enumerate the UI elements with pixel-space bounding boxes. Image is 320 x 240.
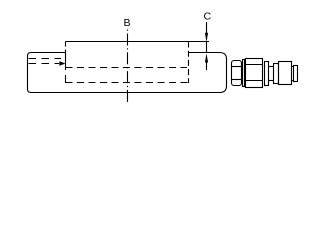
nut 2 facet line upper: [246, 64, 263, 66]
hidden mid line: [66, 67, 188, 69]
coupler groove lower line: [292, 80, 294, 82]
block right edge (dashed): [188, 42, 190, 84]
arrow pointing right at block left edge: [59, 61, 65, 66]
dim C tail lower: [206, 63, 208, 71]
centerline B (vertical dash-dot): [127, 30, 129, 105]
coupler ring: [274, 64, 279, 84]
dim C leader upper: [206, 22, 208, 33]
block top edge + dimension extension line: [66, 41, 210, 43]
coupler neck lower line: [269, 80, 274, 82]
dim C arrow down: [205, 33, 208, 42]
nut 2 facet line lower: [246, 80, 263, 82]
coupler neck upper line: [269, 66, 274, 68]
dim C line between: [206, 42, 208, 53]
hidden slot line upper (left cap): [29, 58, 62, 60]
hidden slot line lower (left cap): [29, 63, 60, 65]
nut 1 (rounded, on gland): [232, 61, 242, 86]
washer: [243, 60, 245, 87]
body outline (cylindrical housing, rounded rect, top edge interrupted by block): [28, 53, 227, 93]
dim C arrow up: [205, 53, 208, 62]
coupler cylinder: [279, 62, 292, 85]
coupler flange: [265, 62, 269, 86]
nut 1 facet line lower: [232, 79, 242, 81]
nut 1 facet line upper: [232, 66, 242, 68]
hex nut 2: [246, 59, 263, 88]
coupler groove upper line: [292, 66, 294, 68]
block hidden bottom edge: [66, 82, 189, 84]
svg-text:C: C: [204, 11, 212, 23]
block left edge (dashed segments): [65, 42, 67, 84]
coupler end cap: [294, 66, 298, 82]
svg-text:B: B: [124, 17, 131, 29]
